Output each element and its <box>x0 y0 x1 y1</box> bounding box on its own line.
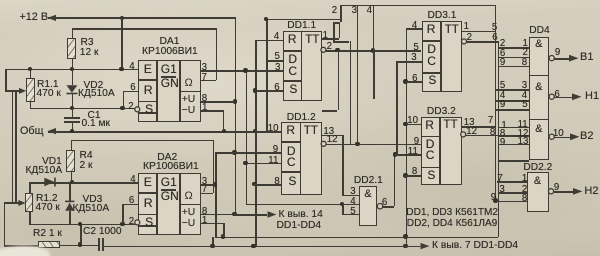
node K vyv 7 label <box>432 241 518 252</box>
pin DD4.3 output inversion circle <box>549 134 554 139</box>
pin 4 label DD3.1 R <box>412 21 417 31</box>
pin 10 label DD1.2 R <box>268 124 279 134</box>
wire DD3.2 S input <box>406 175 421 177</box>
wire R1.2 top lead <box>29 182 31 193</box>
pin 11 label DD4.3 <box>518 120 528 130</box>
gate DD2.2 outline <box>527 172 549 212</box>
net label 9 g3row3 <box>500 138 505 148</box>
wire DD4.2 input row3 <box>495 109 529 111</box>
IC DD4 name label <box>529 26 549 37</box>
flip-flop DD1.1 outline <box>283 31 323 101</box>
node Obshch label <box>20 126 43 137</box>
pin 9 label DD2.2 <box>554 183 559 193</box>
wire bottom rail R2 to C2 <box>60 245 98 247</box>
node B1 arrow <box>569 55 579 62</box>
IC DA1 cells <box>156 60 158 121</box>
wire DD4.2 input row1 <box>495 89 529 91</box>
pin 1 label DD2.2 <box>522 174 527 184</box>
wire top link 4 down <box>373 5 375 51</box>
pin 12 label DD3.2 <box>466 127 477 137</box>
node B2 label <box>580 131 593 143</box>
node H2 label <box>584 186 598 198</box>
wire DD1.2 pin13 output <box>322 135 342 137</box>
pin 10 label DD3.2 R <box>407 116 418 126</box>
flip-flop DD1.1 letters <box>288 33 297 46</box>
IC DA1 cell letters <box>144 63 152 76</box>
resistor R2 <box>38 241 60 248</box>
pin 11 label DD3.2 C <box>408 147 418 157</box>
value label R4 <box>80 151 93 162</box>
pin DD3.2 pin12 inversion circle <box>461 132 466 137</box>
IC DD1.1 name label <box>287 21 316 32</box>
pin 10 label DD4.3 <box>553 129 564 139</box>
node H2 arrow <box>573 188 583 195</box>
node R1.1 wiper arrow <box>19 88 26 94</box>
wire gang link R1.1-R1.2 <box>12 91 14 202</box>
pin 6 label DA2 R <box>129 196 134 206</box>
IC DA2 cell letters <box>144 176 152 189</box>
wire R1.1 top lead <box>30 69 32 78</box>
pin 5 label DD3.1 D <box>413 43 418 53</box>
gate DD4.2 amp <box>535 82 542 93</box>
pin 8 label DA2 <box>202 207 207 217</box>
pin DA2 S inversion circle <box>135 220 140 225</box>
IC DA2 name label <box>157 153 177 164</box>
pin 1 label DD1.1 <box>323 31 328 41</box>
net label 2 row1 <box>500 39 505 49</box>
wire DA1 R pin branch <box>123 91 125 108</box>
wire pin2 stub down <box>338 50 340 110</box>
net label 6 <box>492 33 497 43</box>
wire R1.2 wiper link <box>4 202 19 204</box>
diode VD3 <box>65 201 74 210</box>
wire DD4.1 input row1 <box>498 47 529 49</box>
wire DD2.1 output up <box>383 206 394 208</box>
wire DD4.3 input row2 <box>498 135 529 137</box>
wire VD3 bottom lead <box>69 211 71 224</box>
wire DA1 pin7 to R3 top <box>216 28 218 80</box>
legend DD2 DD4 type <box>407 219 498 230</box>
net label 8 <box>490 128 495 138</box>
wire DD1.1 pin2 to DD3.1 D <box>326 50 421 52</box>
flip-flop DD3.1 outline <box>422 21 463 92</box>
wire right rail A <box>495 5 497 201</box>
wire VD2 top lead <box>72 69 74 86</box>
net label 3 dd22 <box>499 185 504 195</box>
wire +12V branch down to node A <box>121 18 123 69</box>
wire top bus <box>340 5 495 7</box>
wire R4 top lead <box>71 140 73 150</box>
wire DD2.2 input row1 <box>497 181 527 183</box>
wire DD3.1 R input <box>406 28 422 30</box>
wire DD1.1 pin1 output <box>322 38 339 40</box>
IC DD4 sections <box>529 75 550 77</box>
pin 3 label DD4.2 <box>522 81 527 91</box>
pin 6 label DD2.1 <box>382 198 387 208</box>
net label 7 dd22 <box>497 174 502 184</box>
node K vyv 7 arrow <box>421 243 430 249</box>
net label 2 <box>332 6 337 16</box>
wire R3 top lead <box>72 28 74 38</box>
legend DD1 DD3 type <box>406 208 498 219</box>
wire R1.1 wiper link <box>5 69 7 91</box>
pin 2 label DD4.1 <box>523 48 528 58</box>
pin 13 label DD3.2 <box>464 118 475 128</box>
net label 5 <box>492 23 497 33</box>
net label 8 g3row2 <box>500 129 505 139</box>
gate DD2.2 amp <box>534 176 541 187</box>
node +12V label <box>20 12 49 23</box>
wire DD4.2 input row2 <box>495 100 529 102</box>
pin 6 label DD4.2 <box>554 90 559 100</box>
wire top bus branch 3 <box>357 5 359 144</box>
pin 9 label DD1.2 D <box>273 145 278 155</box>
net label 3 <box>352 6 357 16</box>
node R1.2 wiper arrow <box>18 200 25 206</box>
pin 2 label DA2 S <box>129 217 134 227</box>
resistor R3 <box>67 38 76 59</box>
value label R1.1 <box>37 80 59 91</box>
wire output B1 <box>554 58 569 60</box>
node Obshch arrow <box>48 128 57 134</box>
wire DA1 pin3 output <box>201 70 283 72</box>
wire stub below node 4 <box>373 50 375 99</box>
pin 6 label DD1.1 S <box>274 83 279 93</box>
wire bottom rail left <box>4 245 38 247</box>
wire bottom rail right <box>103 246 420 248</box>
wire R1.1 bottom lead <box>30 102 32 108</box>
pin DD2.2 output inversion circle <box>548 189 553 194</box>
pin 3 label DD1.1 C <box>275 63 280 73</box>
flip-flop DD3.1 letters <box>427 23 436 36</box>
pin 1 label DA1 <box>202 103 207 113</box>
pin 4 label DA1 E <box>129 62 134 72</box>
pin 8 label DD1.2 S <box>274 177 279 187</box>
pin 3 label DD3.1 C <box>411 53 416 63</box>
wire C2 tap to trigger <box>80 224 82 244</box>
net label 4 <box>367 6 372 16</box>
pin 3 label DA2 <box>202 177 207 187</box>
node B2 arrow <box>570 133 580 140</box>
wire right rail B <box>498 41 500 236</box>
wire DA2 pin8 +U <box>201 214 235 216</box>
value label VD3 <box>83 195 103 206</box>
wire node A horizontal <box>5 69 138 71</box>
wire Obshch common rail <box>48 131 281 133</box>
IC DD2.1 name label <box>354 176 383 187</box>
pin DD2.1 output inversion circle <box>377 204 382 209</box>
pin 5 label DD2.1 <box>350 207 355 217</box>
wire DD4.1 input row2 <box>498 57 529 59</box>
flip-flop DD1.1 cells <box>301 31 303 101</box>
pin 1 label DD4.1 <box>523 39 528 49</box>
value label R3 <box>81 38 94 49</box>
pin 8 label DA1 <box>202 94 207 104</box>
wire DD1 reset rail <box>255 40 257 246</box>
wire R3 bottom lead <box>72 59 74 69</box>
wire pin1 jog down rail <box>350 41 352 143</box>
pin 5 label DD4.2 <box>522 100 527 110</box>
IC DD3.2 name label <box>427 107 456 118</box>
wire VD2 bottom lead <box>72 94 74 108</box>
flip-flop DD1.2 cells <box>300 122 302 195</box>
wire DD3.1 pin1 output <box>462 31 495 33</box>
pin 5 label DD1.1 D <box>275 52 280 62</box>
wire DD1.2 S input <box>254 184 281 186</box>
capacitor C1 <box>64 117 80 119</box>
value label VD2 <box>84 81 104 92</box>
wire trigger node DA2 <box>29 224 135 226</box>
flip-flop DD1.2 outline <box>281 122 322 195</box>
wire DD2.1 input 5 <box>342 204 344 214</box>
wire DD3.2 C input <box>395 154 421 156</box>
flip-flop DD3.2 letters <box>425 119 434 132</box>
pin 1 label DD3.1 <box>464 22 469 32</box>
value label R1.2 <box>36 194 58 205</box>
flip-flop DD3.2 cells <box>439 117 441 185</box>
symbol DA1 generator <box>185 77 193 89</box>
wire DD4.3 input row1 <box>498 127 529 129</box>
pin DD1.2 pin12 inversion circle <box>321 141 326 146</box>
wire DD1.2 C input <box>245 163 281 165</box>
net label 9 dd22 <box>491 193 496 203</box>
wire DD2.1 input 3 <box>342 195 359 197</box>
wire DD1.1 S input <box>255 90 283 92</box>
pin DD4.2 output inversion circle <box>549 94 554 99</box>
gate DD4.1 amp <box>535 39 542 50</box>
pin 12 label DD4.3 <box>518 129 529 139</box>
value label C1 <box>88 111 101 122</box>
pin 1 label DA2 <box>202 216 207 226</box>
pin DA1 S inversion circle <box>135 107 140 112</box>
wire R1.2 bottom lead <box>29 212 31 223</box>
pin DD4.1 output inversion circle <box>549 56 554 61</box>
value label R2 <box>33 229 62 240</box>
pin 8 label DD2.2 <box>522 194 527 204</box>
pin 7 label DA2 <box>202 185 207 195</box>
net label 6 row2 <box>500 49 505 59</box>
pin 3 label DA1 <box>202 63 207 73</box>
wire DD2.1 input 4 feed <box>246 204 360 206</box>
net label 9 g2row3 <box>500 100 505 110</box>
wire DA2 output to DD1.2 D <box>215 152 281 154</box>
wire DD4.3 input row3 <box>498 144 529 146</box>
wire DA2 E pin <box>72 182 138 184</box>
potentiometer R1.1 <box>26 78 35 102</box>
wire ground bus <box>215 237 498 239</box>
pin 9 label DD4.1 <box>555 48 560 58</box>
wire DA1 pin8 +U <box>201 101 235 103</box>
wire DA2 pin7 to R4 top <box>213 140 215 193</box>
net label 9 row3 <box>500 58 505 68</box>
gate DD2.1 amp <box>364 189 371 200</box>
wire R4 bottom lead <box>71 172 73 182</box>
gate DD4.3 amp <box>535 124 542 135</box>
pin 4 label DD4.2 <box>522 91 527 101</box>
node B1 label <box>580 52 593 64</box>
wire DA1 output rail <box>246 70 248 203</box>
node H1 arrow <box>572 93 582 100</box>
capacitor C2 <box>98 238 100 251</box>
flip-flop DD1.2 letters <box>286 124 295 137</box>
IC DA1 name label <box>160 37 180 48</box>
value label C2 <box>83 227 122 238</box>
IC DD2.2 name label <box>523 163 552 174</box>
pin 2 label DA1 S <box>128 102 133 112</box>
pin DD3.1 pin2 inversion circle <box>462 39 467 44</box>
wire VD1 line <box>29 182 72 184</box>
IC DD3.1 name label <box>428 11 457 22</box>
IC DD4 outline <box>529 37 550 161</box>
wire DD3.2 R input <box>406 124 421 126</box>
gate DD2.1 outline <box>359 186 377 226</box>
diode VD2 <box>66 85 77 93</box>
pin 8 label DD3.2 S <box>412 167 417 177</box>
wire output H2 <box>554 191 573 193</box>
net label 7 <box>488 116 493 126</box>
wire DD3 clock rail <box>396 61 398 154</box>
net label 4 g2row2 <box>500 91 505 101</box>
wire DA2 pin3 output <box>201 184 216 186</box>
node H1 label <box>585 91 599 103</box>
wire DD3.1 pin2 output <box>467 41 498 43</box>
resistor R4 <box>66 150 75 172</box>
wire DD1.2 pin12 to DD3.2 D <box>326 144 421 146</box>
diode VD1 <box>44 178 55 187</box>
wire DA2 R pin branch <box>122 204 124 224</box>
net label 1 g3row1 <box>501 121 506 131</box>
flip-flop DD3.1 cells <box>440 21 442 92</box>
wire DD4.1 input row3 <box>498 66 529 68</box>
pin DD1.1 pin2 inversion circle <box>321 47 326 52</box>
pin 6 label DA1 R <box>130 83 135 93</box>
value label VD1 <box>42 157 62 168</box>
wire DD3.1 S input <box>406 81 422 83</box>
pin 4 label DD1.1 R <box>274 32 279 42</box>
wire trigger node DA1 <box>30 108 135 110</box>
wire DD3.2 pin12 output <box>466 135 498 137</box>
node K vyv 14 label <box>279 210 323 221</box>
pin 13 label DD4.3 <box>518 137 529 147</box>
pin 2 label DD2.2 <box>522 185 527 195</box>
pin 13 label DD1.2 <box>323 127 334 137</box>
pin 4 label DA2 E <box>130 175 135 185</box>
wire DD1.1 Q top link <box>266 19 340 21</box>
pin 2 label DD3.1 <box>467 33 472 43</box>
net label 5 g2row1 <box>500 81 505 91</box>
pin 7 label DA1 <box>202 73 207 83</box>
pin 6 label DD3.1 S <box>412 74 417 84</box>
wire +12V supply line <box>48 17 236 19</box>
IC DD1.2 name label <box>287 113 316 124</box>
page edge artifact <box>0 243 51 256</box>
pin 4 label DD2.1 <box>350 197 355 207</box>
symbol DA2 generator <box>185 190 193 202</box>
wire DA2 pin1 jog <box>201 223 223 225</box>
wire DD2.2 input row2 <box>499 192 527 194</box>
node K vyv 14 arrow <box>268 211 277 217</box>
pin 8 label DD4.1 <box>522 58 527 68</box>
pin 2 label DD1.1 <box>327 42 332 52</box>
pin 3 label DD2.1 <box>350 187 355 197</box>
wire DD3.2 pin13 output <box>462 126 495 128</box>
wire DD4 ground stub <box>498 160 529 162</box>
potentiometer R1.2 <box>25 193 33 212</box>
IC DA2 cells <box>156 173 158 234</box>
wire DD3.1 C input <box>396 61 421 63</box>
wire DA1 pin1 -U <box>201 110 224 112</box>
IC DA1 outline <box>138 60 201 121</box>
flip-flop DD3.2 outline <box>421 117 462 185</box>
pin 9 label DD3.2 D <box>414 137 419 147</box>
wire DD1.1 Q to D <box>266 19 268 131</box>
wire output H1 <box>554 97 572 99</box>
node +12V arrow <box>48 15 57 21</box>
wire +12V rail down to DA1 +U, D9, DA2 +U <box>235 17 237 214</box>
pin 12 label DD1.2 <box>327 135 338 145</box>
pin 11 label DD1.2 C <box>268 156 278 166</box>
wire DD3 reset rail <box>406 28 408 246</box>
wire output B2 <box>554 137 570 139</box>
IC DA2 outline <box>138 173 201 234</box>
wire DD2.2 input row3 <box>495 201 527 203</box>
wire VD3 top lead <box>69 182 71 201</box>
